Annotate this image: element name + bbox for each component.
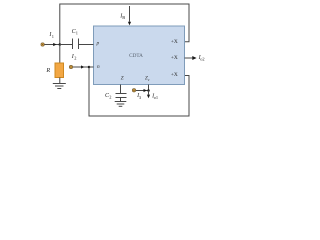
- junction node at Zc: [147, 89, 150, 92]
- capacitor C1: [72, 39, 74, 50]
- svg-text:p: p: [96, 41, 100, 47]
- wire resistor to ground: [59, 78, 61, 84]
- arrowhead I3: [144, 89, 147, 92]
- svg-text:+X: +X: [171, 55, 178, 61]
- wire Zc pin down to junction: [148, 85, 150, 91]
- output wire +X middle with arrow Io2: [185, 57, 193, 59]
- wire I3 node to junction: [136, 90, 149, 92]
- svg-text:CDTA: CDTA: [129, 53, 143, 59]
- svg-text:o2: o2: [200, 56, 204, 61]
- wire: top feedback loop from +X1 to p-node: [60, 4, 189, 45]
- svg-text:B: B: [122, 15, 125, 20]
- svg-text:+X: +X: [171, 39, 178, 45]
- arrowhead I2: [81, 65, 84, 68]
- svg-text:Z: Z: [121, 77, 124, 82]
- wire C1 to p pin: [79, 44, 94, 46]
- node I3 input (orange terminal): [132, 89, 135, 92]
- junction node at n row: [88, 66, 91, 69]
- arrowhead I1: [53, 43, 56, 46]
- wire Z pin down to C2: [120, 85, 122, 94]
- bias current IB arrow: [129, 6, 131, 22]
- svg-text:R: R: [45, 67, 50, 74]
- svg-text:2: 2: [74, 56, 76, 61]
- svg-text:1: 1: [76, 31, 78, 36]
- ground symbol (C2): [115, 101, 127, 103]
- ground symbol (R): [53, 83, 66, 85]
- wire junction down to resistor: [59, 45, 61, 64]
- node I1 input (orange terminal): [41, 43, 44, 46]
- capacitor C2: [116, 93, 127, 95]
- svg-text:n: n: [97, 64, 100, 70]
- svg-text:+X: +X: [171, 72, 178, 78]
- svg-text:o1: o1: [154, 95, 158, 100]
- resistor R: [55, 63, 64, 78]
- wire: bottom feedback loop from +X3 to n-node: [89, 67, 189, 116]
- wire I1 node to junction: [45, 44, 60, 46]
- wire junction to n pin: [89, 66, 94, 68]
- CDTA block U1: [94, 26, 185, 85]
- junction node at p row: [59, 43, 62, 46]
- output arrow Io1 downward: [148, 91, 150, 95]
- wire C2 to ground: [120, 98, 122, 102]
- wire I2 node to junction: [73, 66, 89, 68]
- svg-text:1: 1: [52, 34, 54, 39]
- svg-text:2: 2: [109, 95, 111, 100]
- wire junction to C1: [60, 44, 73, 46]
- node I2 input (orange terminal): [69, 65, 72, 68]
- svg-text:3: 3: [139, 95, 142, 100]
